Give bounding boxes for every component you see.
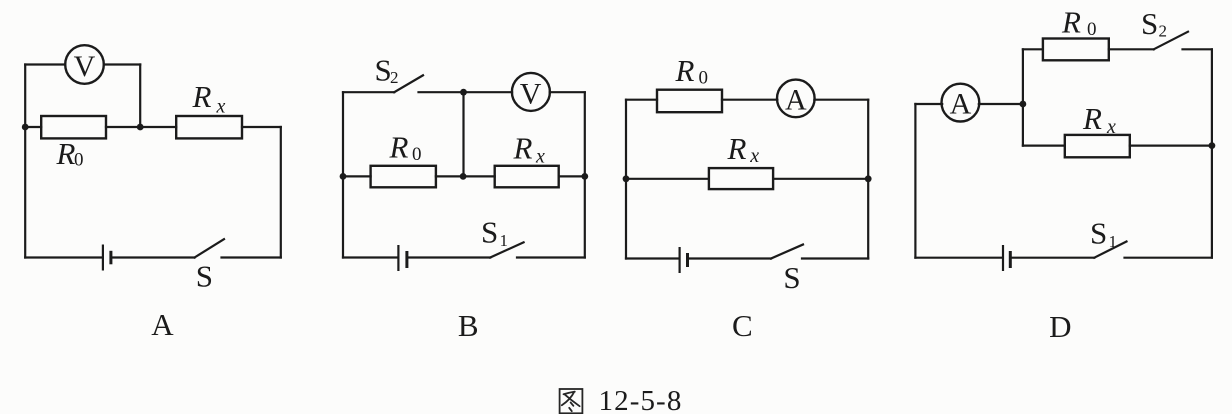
battery (circuit C) <box>680 247 688 273</box>
wire <box>222 256 281 258</box>
wire <box>915 257 1002 259</box>
battery (circuit D) <box>1003 245 1010 271</box>
svg-text:12-5-8: 12-5-8 <box>599 385 683 414</box>
svg-text:R: R <box>389 130 409 165</box>
wire <box>25 256 102 258</box>
wire <box>113 256 195 258</box>
wire <box>139 65 141 128</box>
switch S2 (circuit D) <box>1154 32 1188 50</box>
label S2 (circuit D) <box>1141 6 1167 41</box>
svg-text:A: A <box>785 83 807 116</box>
label S2 (circuit B) <box>375 53 399 88</box>
wire <box>242 126 281 128</box>
resistor R0 (circuit B) <box>371 166 436 188</box>
svg-text:R: R <box>1082 101 1102 136</box>
label S1 (circuit D) <box>1090 216 1117 251</box>
label S1 (circuit B) <box>481 215 508 250</box>
wire <box>104 63 140 65</box>
wire <box>106 126 176 128</box>
wire <box>915 103 942 105</box>
svg-text:D: D <box>1049 309 1071 344</box>
node (junction dot) <box>581 173 588 180</box>
node (junction dot) <box>137 124 144 131</box>
wire <box>1023 145 1065 147</box>
voltmeter (circuit A) <box>65 45 104 84</box>
ammeter (circuit C) <box>777 80 815 118</box>
wire <box>626 178 709 180</box>
wire <box>25 126 41 128</box>
node (junction dot) <box>1209 142 1216 149</box>
svg-text:2: 2 <box>1159 22 1168 41</box>
wire <box>1023 48 1043 50</box>
svg-text:R: R <box>192 79 212 114</box>
wire <box>1125 257 1212 259</box>
switch S1 (circuit B) <box>490 242 523 257</box>
wire <box>550 91 585 93</box>
wire <box>1022 49 1024 145</box>
wire <box>559 175 585 177</box>
wire <box>409 256 491 258</box>
wire <box>722 99 777 101</box>
wire <box>419 91 513 93</box>
wire <box>24 65 26 258</box>
svg-text:2: 2 <box>390 68 399 87</box>
wire <box>25 63 65 65</box>
svg-text:R: R <box>513 131 533 166</box>
label R0 (circuit C) <box>675 53 709 89</box>
svg-text:V: V <box>74 50 96 83</box>
wire <box>343 256 397 258</box>
wire <box>1183 48 1212 50</box>
node (junction dot) <box>460 173 467 180</box>
svg-text:S: S <box>783 260 800 295</box>
resistor Rx (circuit A) <box>176 116 242 138</box>
svg-text:S: S <box>481 215 498 250</box>
svg-text:A: A <box>151 307 174 342</box>
svg-text:S: S <box>196 259 213 294</box>
wire <box>625 100 627 259</box>
svg-text:0: 0 <box>412 144 422 165</box>
switch S (circuit A) <box>195 239 225 257</box>
svg-text:0: 0 <box>74 150 84 171</box>
label R0 (circuit D) <box>1061 5 1097 41</box>
wire <box>462 92 464 176</box>
battery (circuit A) <box>103 245 111 271</box>
wire <box>773 178 868 180</box>
svg-text:1: 1 <box>1109 232 1118 251</box>
wire <box>342 92 344 257</box>
wire <box>343 91 394 93</box>
resistor Rx (circuit C) <box>709 168 773 189</box>
switch S1 (circuit D) <box>1094 242 1126 258</box>
svg-text:R: R <box>675 53 695 88</box>
resistor Rx (circuit B) <box>495 166 559 188</box>
node (junction dot) <box>460 89 467 96</box>
wire <box>814 99 868 101</box>
label Rx (circuit D) <box>1082 101 1116 138</box>
resistor R0 (circuit C) <box>657 90 722 113</box>
wire <box>626 257 679 259</box>
battery (circuit B) <box>398 245 407 271</box>
wire <box>867 100 869 259</box>
wire <box>343 175 371 177</box>
svg-text:R: R <box>727 131 747 166</box>
node (junction dot) <box>22 124 29 131</box>
svg-text:A: A <box>950 87 972 120</box>
svg-text:0: 0 <box>699 68 709 89</box>
wire <box>1012 257 1094 259</box>
switch S2 (circuit B) <box>394 75 423 92</box>
wire <box>280 127 282 258</box>
svg-text:1: 1 <box>500 231 509 250</box>
label R0 (circuit B) <box>389 130 422 166</box>
svg-text:x: x <box>749 145 759 167</box>
label R0 (circuit A) <box>56 136 84 171</box>
wire <box>517 256 585 258</box>
wire <box>1211 49 1213 257</box>
wire <box>436 175 495 177</box>
resistor R0 (circuit A) <box>41 116 106 138</box>
svg-text:R: R <box>1061 5 1081 40</box>
svg-text:x: x <box>1106 116 1116 138</box>
wire <box>1109 48 1154 50</box>
node (junction dot) <box>623 175 630 182</box>
wire <box>584 92 586 257</box>
svg-text:C: C <box>732 308 753 343</box>
label Rx (circuit B) <box>513 131 546 168</box>
wire <box>914 104 916 258</box>
node (junction dot) <box>340 173 347 180</box>
caption: character 图 (drawn) <box>560 389 583 413</box>
wire <box>802 257 868 259</box>
label Rx (circuit C) <box>727 131 760 167</box>
wire <box>689 257 771 259</box>
svg-text:R: R <box>56 136 76 171</box>
wire <box>979 103 1023 105</box>
wire <box>626 99 657 101</box>
svg-text:S: S <box>1141 6 1158 41</box>
svg-text:x: x <box>535 146 545 168</box>
svg-text:0: 0 <box>1087 19 1097 40</box>
resistor R0 (circuit D) <box>1043 39 1109 61</box>
node (junction dot) <box>1020 101 1027 108</box>
ammeter (circuit D) <box>942 84 980 122</box>
voltmeter (circuit B) <box>512 73 550 111</box>
svg-text:x: x <box>216 96 226 118</box>
resistor Rx (circuit D) <box>1065 135 1130 157</box>
node (junction dot) <box>865 175 872 182</box>
svg-text:B: B <box>458 308 479 343</box>
wire <box>1130 145 1212 147</box>
svg-text:V: V <box>520 78 542 111</box>
svg-text:S: S <box>1090 216 1107 251</box>
label Rx (circuit A) <box>192 79 226 118</box>
switch S (circuit C) <box>771 245 803 259</box>
